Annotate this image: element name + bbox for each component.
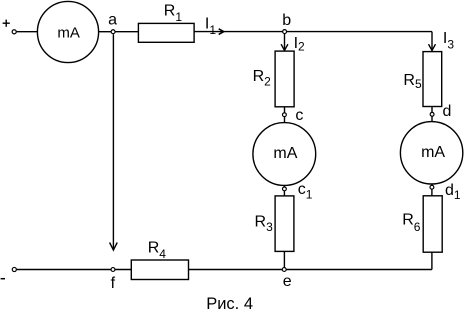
resistor R2 body [275,51,294,107]
wire: resistor R2 to node c [284,107,286,113]
svg-text:I3: I3 [443,30,454,52]
label: minus polarity (drawn) [1,278,5,280]
node e [282,268,286,272]
label: plus polarity (drawn) [3,20,10,27]
svg-text:b: b [282,12,291,29]
svg-text:c1: c1 [298,181,313,202]
resistor R6 body [423,196,442,252]
wire: resistor R3 down to node e [283,251,285,269]
wire: ammeter PA1 to node a [99,31,114,33]
svg-text:R2: R2 [253,68,272,88]
node d [430,112,434,116]
svg-text:d1: d1 [445,182,461,202]
wire: node b down to resistor R2 (current I2 branch) [284,32,286,51]
resistor R4 body [131,260,188,280]
ammeter PA2 circle [253,123,316,186]
node c [283,113,287,117]
wire: ammeter PA2 to node c1 [283,185,285,187]
svg-text:mA: mA [57,24,80,41]
svg-text:e: e [283,273,292,290]
svg-text:R3: R3 [255,214,274,235]
arrowhead: link a to f pointing down [110,243,118,251]
negative input terminal [12,267,16,271]
svg-text:R5: R5 [403,72,422,91]
svg-text:d: d [443,103,452,120]
resistor R1 body [138,23,194,42]
wire: bottom bus from resistor R4 through node e to bottom-right corner [189,269,432,271]
svg-text:mA: mA [273,145,297,162]
wire: resistor R6 down to bottom-right corner [431,252,433,269]
svg-text:I1: I1 [205,15,216,36]
wire: node a to resistor R1 [113,31,138,33]
positive input terminal [12,30,16,34]
resistor R3 body [275,196,294,252]
wire: top-right corner down to resistor R5 (current I3 branch) [431,32,433,52]
current arrow I1 head on top wire [219,29,224,35]
svg-text:c: c [295,107,303,124]
node b [283,30,287,34]
current arrow I2 head pointing down into R2 [281,44,288,50]
svg-text:Рис. 4: Рис. 4 [206,295,253,313]
wire: resistor R5 to node d [431,107,433,113]
wire: node d1 to resistor R6 [431,189,433,196]
node f [111,268,115,272]
resistor R5 body [423,52,442,107]
wire: resistor R1 to node b [194,31,285,33]
node d1 [430,185,434,189]
current arrow I3 head pointing down into R5 [429,44,436,50]
wire: - terminal to node f [17,269,113,271]
node c1 [283,187,287,191]
ammeter PA3 circle [400,122,462,184]
svg-text:f: f [111,275,116,292]
ammeter PA1 circle [37,1,98,62]
wire: node b to top-right corner [285,31,432,33]
wire: node d to ammeter PA3 [431,116,433,122]
wire: node f to resistor R4 [113,269,131,271]
svg-text:mA: mA [421,144,445,161]
wire: node c1 to resistor R3 [283,191,285,196]
svg-text:I2: I2 [294,35,305,54]
svg-text:R6: R6 [402,212,421,234]
wire: ammeter PA3 to node d1 [431,184,433,185]
wire: vertical link from node a down toward node f [112,34,114,249]
wire: + terminal to ammeter PA1 [17,31,38,33]
wire: node c to ammeter PA2 [284,117,286,123]
svg-text:a: a [108,12,117,29]
node a [111,30,115,34]
svg-text:R4: R4 [148,239,167,261]
svg-text:R1: R1 [164,2,183,24]
